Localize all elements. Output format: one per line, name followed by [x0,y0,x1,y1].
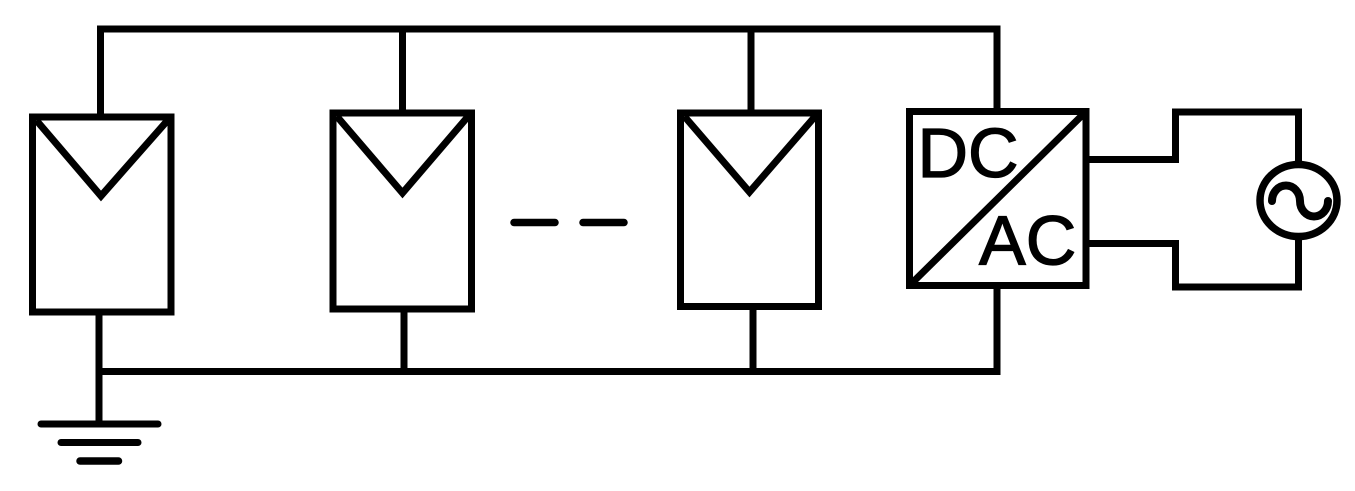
wire AC loop upper-left vertical [1172,109,1179,164]
wire inverter output upper stub [1086,156,1179,163]
dash ellipsis left [514,219,555,227]
wire bottom bus [96,368,1001,375]
AC source G1 sine [1272,186,1328,217]
wire inverter bottom drop [994,286,1001,376]
AC source G1 circle [1260,165,1337,237]
wire AC loop lower-left vertical [1172,240,1179,291]
inverter U1 box [910,112,1087,286]
inverter U1 diagonal [910,112,1087,286]
wire AC loop bottom [1172,284,1302,291]
ground [41,424,158,461]
wire panel2 top drop [399,26,406,114]
wire AC loop right lower vertical [1295,236,1302,291]
wire AC loop right upper vertical [1295,109,1302,166]
wire panel1 bottom drop [96,312,103,424]
PV module PV2 [333,113,472,309]
wire panel1 top drop [97,26,104,118]
PV module PV1 [33,117,172,312]
wire AC loop top [1172,109,1302,116]
wire panel2 bottom drop [401,309,408,375]
svg-text:AC: AC [979,202,1076,280]
wire inverter top drop [994,26,1001,113]
wire panel3 bottom drop [750,307,757,376]
wire top bus [97,26,1001,33]
wire panel3 top drop [748,26,755,114]
wire inverter output lower stub [1086,240,1179,247]
svg-text:DC: DC [918,114,1019,192]
PV module PV3 [681,113,819,307]
dash ellipsis right [583,219,624,227]
